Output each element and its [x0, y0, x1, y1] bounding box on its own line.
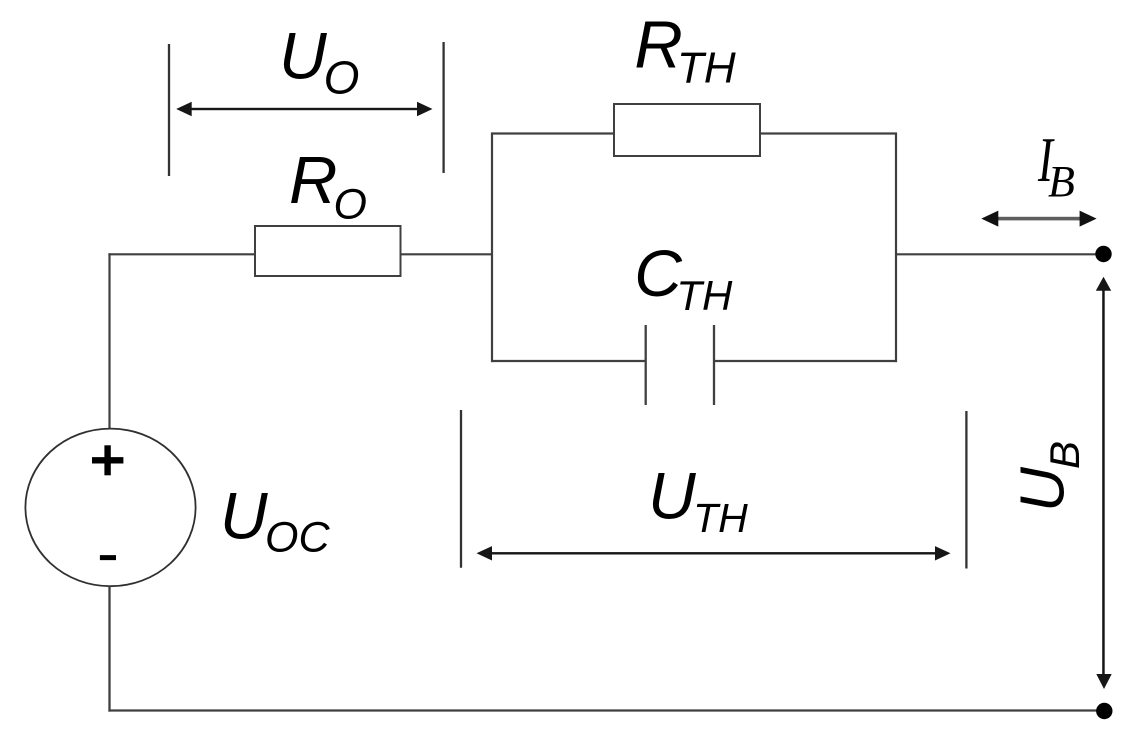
- svg-text:B: B: [1048, 157, 1075, 206]
- svg-text:U: U: [220, 479, 268, 553]
- svg-text:R: R: [289, 143, 337, 218]
- U_TH double arrow: [477, 546, 951, 560]
- resistor R_TH: [614, 104, 760, 156]
- svg-text:TH: TH: [676, 272, 733, 319]
- wire RC box top edge right segment: [759, 132, 897, 134]
- svg-text:R: R: [634, 7, 682, 82]
- svg-text:OC: OC: [265, 514, 330, 562]
- resistor R_O: [255, 226, 401, 276]
- svg-text:TH: TH: [693, 495, 748, 541]
- wire RC box bottom edge left segment: [491, 360, 646, 362]
- svg-text:O: O: [324, 52, 360, 104]
- svg-text:U: U: [279, 18, 327, 92]
- svg-text:U: U: [648, 458, 696, 532]
- wire RC box right edge: [895, 133, 897, 363]
- wire top-left horizontal from source branch to R_O: [108, 253, 256, 255]
- wire RC box left edge: [491, 133, 493, 363]
- capacitor C_TH left plate: [645, 325, 647, 405]
- wire left vertical lower segment: [108, 586, 110, 712]
- svg-text:TH: TH: [677, 44, 736, 93]
- wire left vertical upper segment: [108, 253, 110, 429]
- node positive terminal dot: [1095, 246, 1111, 262]
- U_O measurement left bar: [168, 44, 170, 176]
- U_O double arrow: [176, 102, 432, 116]
- wire RC box bottom edge right segment: [714, 360, 897, 362]
- U_TH measurement right bar: [965, 411, 967, 569]
- voltage source minus sign: [100, 555, 116, 560]
- I_B double arrow: [981, 211, 1096, 227]
- voltage source U_OC ellipse: [25, 429, 195, 587]
- node negative terminal dot: [1096, 703, 1112, 719]
- wire R_O to RC box: [400, 253, 493, 255]
- U_TH measurement left bar: [460, 410, 462, 568]
- U_B double arrow: [1096, 277, 1112, 689]
- wire bottom horizontal: [108, 709, 1104, 711]
- wire RC box top edge left segment: [491, 132, 615, 134]
- svg-text:O: O: [334, 181, 367, 229]
- capacitor C_TH right plate: [713, 325, 715, 405]
- wire output to positive terminal: [896, 253, 1103, 255]
- voltage source plus sign: [92, 445, 123, 475]
- svg-text:U: U: [1009, 466, 1078, 512]
- U_O measurement right bar: [442, 42, 444, 173]
- svg-text:B: B: [1041, 441, 1088, 469]
